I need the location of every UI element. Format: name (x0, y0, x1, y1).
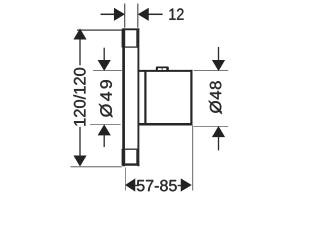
dim 120/120: bottom extension line (71, 166, 122, 168)
dim Ø49: bottom arrow (98, 125, 110, 135)
dim 57-85: right arrow (181, 179, 191, 191)
dim 12: left extension line (124, 4, 126, 28)
dim Ø48: slash overshoot of Ø glyph (209, 101, 222, 114)
dim Ø48: top arrow tail (218, 47, 220, 61)
dim 12: left arrow (114, 9, 124, 21)
handle right edge (front face) (190, 70, 192, 126)
dim 120/120: upper dimension line (79, 39, 81, 66)
dim Ø48: bottom arrow tail (218, 137, 220, 151)
dim Ø49: slash overshoot of Ø glyph (99, 104, 113, 118)
dim 57-85: left extension line (125, 168, 127, 191)
dim Ø48: top extension line (194, 70, 229, 72)
dim Ø49: top arrow (98, 60, 110, 70)
dim 57-85: left stub (134, 185, 137, 187)
plate left edge upper reinforcement (122, 29, 126, 48)
dim 57-85: right extension line (192, 125, 194, 190)
button on top of handle (156, 67, 169, 72)
dim 12: left leader line (101, 13, 116, 15)
dim 57-85: right stub (178, 185, 182, 187)
dim 120/120: bottom arrow (74, 156, 86, 166)
plate left edge lower reinforcement (122, 149, 126, 166)
dim 12: right arrow (139, 9, 149, 21)
dim 120/120: top arrow (74, 29, 86, 39)
dim Ø48: top arrow (213, 60, 225, 70)
dim Ø48: bottom extension line (194, 126, 229, 128)
dim 12: right leader line (148, 13, 162, 15)
dim 57-85: left arrow (126, 179, 135, 191)
plate upper rung (125, 46, 138, 48)
dim 12: label (169, 8, 183, 19)
sleeve joint line (144, 70, 146, 125)
handle top edge (138, 70, 193, 72)
plate top edge (122, 28, 139, 30)
plate bottom edge (122, 163, 139, 165)
plate right edge lower reinforcement (136, 149, 139, 166)
dim 120/120: label (73, 68, 85, 126)
dim 120/120: top extension line (77, 29, 122, 31)
plate left edge (wall side) (122, 28, 125, 166)
dim 120/120: lower dimension line (79, 127, 81, 157)
dim Ø49: bottom arrow tail (103, 135, 105, 147)
plate lower rung (125, 148, 138, 150)
dim Ø49: top extension line (93, 70, 122, 72)
dim Ø49: label (100, 80, 112, 117)
handle bottom edge (138, 123, 192, 126)
dim 12: right extension line (137, 4, 139, 28)
plate right edge upper reinforcement (136, 29, 139, 48)
dim Ø49: bottom extension line (90, 124, 121, 126)
plate right edge (137, 28, 139, 166)
dim Ø49: top arrow tail (103, 48, 105, 61)
dim Ø48: label (210, 81, 222, 113)
dim Ø48: bottom arrow (213, 127, 225, 137)
dim 57-85: label (137, 180, 177, 191)
